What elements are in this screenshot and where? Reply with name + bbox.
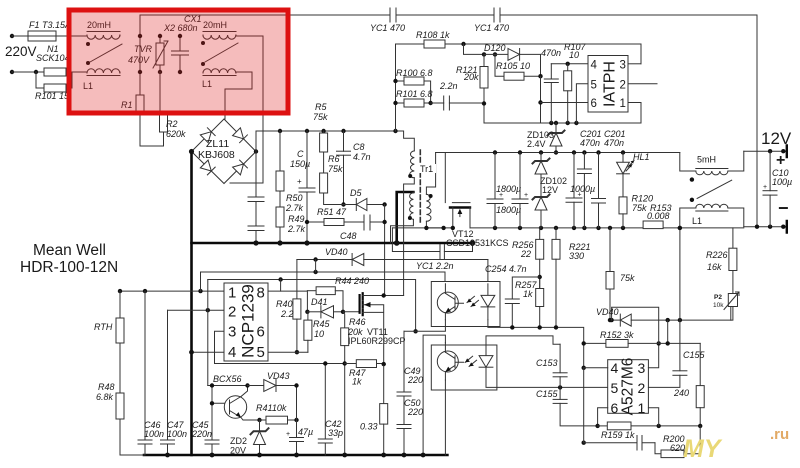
node out minus terminal	[781, 225, 785, 229]
svg-text:4: 4	[611, 360, 619, 376]
svg-text:1k: 1k	[352, 377, 362, 387]
svg-text:47µ: 47µ	[298, 427, 313, 437]
wire opto1 cathode rail y327.4	[488, 320, 584, 368]
wire IATPH pin6	[541, 102, 589, 104]
node sec bottom junction	[441, 226, 445, 230]
capacitor C8 4.7n	[337, 131, 351, 205]
resistor R101(15)	[36, 72, 72, 92]
svg-text:4: 4	[591, 60, 598, 72]
svg-text:10: 10	[314, 329, 324, 339]
transformer Tr1 aux winding	[410, 192, 414, 219]
MOSFET VT12 CSD19531KCS sync rectifier	[450, 203, 470, 228]
node C47 bottom	[165, 453, 170, 458]
node out minus ycap	[755, 225, 759, 229]
wire IATPH pin2 stub	[628, 83, 657, 85]
svg-text:R51 47: R51 47	[317, 207, 347, 217]
node out minus C10	[768, 225, 772, 229]
node 240 bottom	[698, 424, 702, 428]
node +12 rail caps	[493, 150, 497, 154]
node R40 bottom pin5	[295, 350, 299, 354]
svg-text:6: 6	[611, 400, 619, 416]
wire aux rail y123	[484, 122, 641, 124]
wire IATPH pin1	[628, 103, 641, 124]
node A VD40 tap	[313, 270, 317, 274]
wire pin3 net y363.5	[215, 363, 345, 365]
node aux rail 470n	[549, 121, 553, 125]
svg-text:2: 2	[620, 80, 626, 92]
capacitor C48	[364, 215, 385, 230]
capacitor 1800u first	[487, 153, 503, 228]
node CX1 bottom	[178, 70, 182, 74]
capacitor YC1 470 (second)	[494, 8, 500, 22]
choke L1 5mH bottom winding	[680, 204, 744, 228]
wire pin8 riser	[280, 280, 282, 292]
svg-text:0.008: 0.008	[647, 211, 670, 221]
node rail R50	[278, 129, 282, 133]
resistor R221 330	[552, 228, 560, 328]
wire secondary gnd rail left	[392, 227, 452, 229]
node pin4 tap	[582, 366, 586, 370]
capacitor C155 lower	[553, 387, 598, 426]
svg-text:0.33: 0.33	[360, 422, 378, 432]
node R256 C254 tap	[538, 275, 542, 279]
wire top Y-cap line	[140, 15, 757, 227]
node D41 right gate node	[341, 310, 345, 314]
wire R100 R101 feeder vertical	[395, 44, 397, 131]
svg-text:R5: R5	[315, 102, 327, 112]
svg-text:6: 6	[591, 98, 597, 110]
svg-text:2.2: 2.2	[280, 309, 294, 319]
wire +12V secondary rail	[436, 152, 680, 154]
resistor R2 620k	[160, 72, 168, 132]
zener ZD2 20V	[251, 420, 269, 455]
wire VT12 gate feed	[444, 153, 446, 203]
wire output minus rail	[744, 226, 787, 228]
svg-text:1800µ: 1800µ	[496, 184, 521, 194]
svg-text:VD40: VD40	[596, 307, 619, 317]
optocoupler U3 upper box	[431, 282, 500, 327]
node R108 jog	[461, 42, 465, 46]
zener ZD103 2.4V	[548, 123, 565, 153]
node B pin8 riser	[278, 277, 282, 281]
wire drain riser D5	[384, 205, 386, 296]
svg-text:470n: 470n	[604, 138, 624, 148]
bridge rectifier ZL11 KBJ608 diamond	[192, 119, 257, 184]
wire opto2 collector	[423, 335, 445, 455]
capacitor 1800u second	[512, 153, 528, 228]
svg-text:R46: R46	[349, 317, 366, 327]
svg-text:KBJ608: KBJ608	[198, 149, 235, 161]
svg-text:CSD19531KCS: CSD19531KCS	[446, 238, 509, 248]
svg-text:2.2n: 2.2n	[439, 81, 458, 91]
capacitor 1000u	[566, 153, 582, 228]
resistor 75k secondary sense	[606, 228, 614, 320]
node B emitter junction	[413, 329, 417, 333]
svg-text:3: 3	[638, 360, 646, 376]
wire D120 feed	[464, 44, 485, 54]
capacitor C50 220	[397, 425, 411, 456]
wire B drop pin2 to base net	[207, 280, 209, 386]
wire opto2 emitter down	[444, 380, 446, 455]
svg-text:6.8k: 6.8k	[96, 392, 114, 402]
node VD40 cathode tap	[313, 257, 317, 261]
node rail R100 feed	[393, 129, 397, 133]
node D41 left	[305, 310, 309, 314]
resistor R45 10	[304, 312, 312, 352]
svg-text:2: 2	[228, 304, 236, 321]
svg-text:20V: 20V	[230, 446, 246, 456]
wire A horizontal to opto1 collector	[201, 272, 446, 284]
thick primary bus	[144, 152, 473, 456]
node ZD103 bottom	[554, 150, 558, 154]
node gnd rail ZD102	[539, 226, 543, 230]
node TVR top	[158, 34, 162, 38]
wire thick bottom rail	[144, 454, 447, 457]
svg-text:1: 1	[228, 285, 236, 302]
node VD40b cathode bypass	[609, 318, 613, 322]
resistor R1 680k	[136, 95, 164, 146]
svg-text:2.7k: 2.7k	[287, 224, 306, 234]
diode D5	[324, 193, 385, 211]
wire choke2 top output to bridge AC2	[230, 36, 263, 183]
bridge diode top-right	[233, 128, 248, 143]
choke L1 second common-mode, top winding 20mH	[203, 32, 236, 40]
resistor R40 2.2	[293, 299, 301, 352]
resistor R256 22	[536, 228, 544, 292]
svg-text:VD43: VD43	[267, 371, 290, 381]
bridge diode bottom-right	[233, 160, 248, 175]
transformer Tr1 primary main winding	[410, 151, 415, 178]
wire BCX emitter to ZD2/R41	[241, 418, 260, 421]
svg-text:10: 10	[569, 50, 579, 60]
resistor R48 6.8k	[116, 393, 124, 455]
node R101 right	[428, 101, 432, 105]
svg-text:12V: 12V	[542, 185, 558, 195]
svg-text:75k: 75k	[632, 203, 647, 213]
wire VD43 cathode vertical	[296, 386, 298, 421]
node gnd rail C201b	[596, 226, 600, 230]
resistor R226 16k	[729, 228, 737, 294]
wire NCP pin4 to gnd trunk	[192, 351, 225, 353]
resistor 240	[696, 343, 704, 426]
svg-text:33p: 33p	[328, 428, 343, 438]
node R41 right 47u	[294, 418, 298, 422]
wire thick aux winding feed	[397, 192, 414, 243]
svg-text:1: 1	[638, 400, 646, 416]
node VT11 drain D5 tap	[382, 293, 386, 297]
wire A riser	[200, 272, 202, 291]
wire bridge right corner up to +DC rail	[255, 131, 257, 152]
resistor 0.33 current sense	[380, 366, 388, 455]
node wire1 x140	[138, 34, 142, 38]
wire BCX collector up to VD43	[241, 386, 248, 397]
svg-text:HL1: HL1	[633, 152, 650, 162]
svg-text:R105 10: R105 10	[496, 61, 530, 71]
opto2 led	[465, 343, 493, 380]
choke L1 first common-mode, top winding 20mH	[87, 32, 120, 40]
wire VD40 tap to A	[315, 260, 317, 273]
node thick rail 47u	[294, 453, 299, 458]
opto1 led	[467, 284, 495, 320]
node thick aux feed junction	[394, 240, 400, 246]
svg-text:4: 4	[228, 344, 236, 361]
node R51 left	[305, 220, 309, 224]
zener ZD102 lower	[533, 174, 550, 228]
svg-text:3: 3	[620, 60, 626, 72]
output terminal bars	[786, 146, 788, 233]
svg-text:10k: 10k	[713, 302, 724, 309]
node R46 line crosses pin3 net	[343, 361, 347, 365]
wire thick GND trunk	[190, 152, 193, 456]
diode D41	[307, 306, 343, 318]
choke L1 first, bottom winding	[87, 69, 120, 76]
wire primary main bottom to drain line	[404, 178, 415, 296]
svg-text:470n: 470n	[541, 48, 561, 58]
wire B horizontal	[208, 280, 416, 332]
svg-text:YC1 2.2n: YC1 2.2n	[416, 261, 454, 271]
fuse F1	[28, 31, 56, 41]
node thick caps junction	[253, 240, 258, 245]
diode D120	[484, 49, 541, 77]
wire input line top	[12, 35, 87, 37]
transistor BCX56	[224, 396, 246, 418]
svg-text:75k: 75k	[328, 164, 343, 174]
capacitor YC1 470 (first)	[390, 8, 396, 22]
wire NCP pin3 down loop	[215, 331, 225, 363]
wire base jog	[212, 402, 230, 404]
resistor R51 47	[307, 219, 364, 226]
wire R105 node down to pin6 line	[540, 76, 542, 123]
wire aux bottom return	[391, 219, 414, 243]
svg-text:R6: R6	[328, 154, 340, 164]
svg-text:2.4V: 2.4V	[527, 139, 546, 149]
diode VD40 secondary	[620, 314, 731, 326]
node C45 bottom	[210, 453, 215, 458]
node rail C254	[510, 325, 514, 329]
wire vertical to R1 and top rail	[139, 15, 141, 95]
node VD43 cathode	[294, 383, 298, 387]
svg-text:+: +	[524, 192, 528, 199]
varistor TVR 470V	[153, 36, 168, 72]
svg-text:75k: 75k	[620, 273, 635, 283]
svg-text:100n: 100n	[167, 429, 187, 439]
wire NCP pin8 R44 feed	[268, 291, 307, 312]
svg-text:4.7n: 4.7n	[353, 152, 371, 162]
resistor R50 2.7k	[276, 131, 284, 191]
svg-text:R49: R49	[288, 214, 305, 224]
bridge diode top-left	[200, 128, 215, 143]
wire NCP pin1 to left	[120, 290, 224, 292]
svg-text:MY: MY	[683, 435, 723, 463]
wire NCP pin5 right	[268, 351, 308, 353]
resistor R101 6.8	[396, 99, 431, 107]
transformer Tr1 secondary winding	[426, 194, 431, 221]
wire VD40b anode to R152 wire	[667, 320, 669, 343]
node C46 top	[143, 289, 147, 293]
wire A527 pin4	[584, 367, 608, 369]
svg-text:620k: 620k	[166, 129, 186, 139]
capacitor R159 compensation	[637, 436, 642, 451]
resistor R105 10	[495, 54, 541, 80]
svg-text:C155: C155	[683, 350, 706, 360]
node rail R221	[554, 325, 558, 329]
wire opto1 emitter to C49 chain	[404, 320, 445, 332]
capacitor C201 second	[592, 153, 606, 228]
svg-text:3: 3	[228, 324, 236, 341]
svg-text:−: −	[778, 198, 789, 218]
node out plus terminal	[781, 149, 785, 153]
node rail C8	[341, 129, 345, 133]
wire R40 top to VD40 anode line	[296, 260, 298, 299]
wire A527 pin3	[648, 343, 658, 367]
LED HL1	[617, 153, 634, 174]
svg-text:C155: C155	[536, 389, 559, 399]
node R200 tap	[582, 441, 586, 445]
node gnd rail 75k	[608, 226, 612, 230]
wire thick mid rail	[192, 242, 473, 245]
node pin8 vcc tap	[280, 290, 282, 292]
svg-text:D5: D5	[350, 188, 362, 198]
svg-text:F1 T3.15A: F1 T3.15A	[29, 20, 71, 30]
svg-text:1800µ: 1800µ	[496, 205, 521, 215]
svg-text:R45: R45	[313, 319, 331, 329]
resistor R108 1k	[396, 40, 642, 64]
node anode link bottom	[666, 341, 670, 345]
resistor R159 1k	[598, 422, 701, 430]
red highlight box	[69, 10, 288, 113]
node thick rail ZD2	[257, 453, 262, 458]
capacitor C45 220n	[205, 386, 219, 456]
svg-text:HDR-100-12N: HDR-100-12N	[20, 259, 118, 276]
wire choke2 bottom output to bridge AC1	[225, 72, 252, 113]
capacitor C153	[553, 344, 567, 387]
node VD40b 75k junction	[608, 318, 612, 322]
node ZD2 top	[257, 418, 261, 422]
svg-text:R101 15: R101 15	[35, 91, 70, 101]
svg-text:ZD2: ZD2	[230, 436, 247, 446]
label Tr1	[419, 164, 436, 174]
capacitor 2.2n	[431, 96, 484, 110]
node thick C150 junction	[304, 240, 309, 245]
node input terminal L	[10, 34, 14, 38]
node pin1 R159 junction	[657, 424, 661, 428]
choke 5mH phase dots and diagonal	[690, 177, 732, 202]
resistor R153 0.008 shunt	[643, 221, 663, 229]
node thick YC1 junction	[470, 240, 476, 246]
node gnd rail 1800u a	[493, 226, 497, 230]
wire NCP pin2 to left	[168, 309, 225, 311]
capacitor C10 100u	[763, 151, 777, 227]
IC U1 NCP1239 box	[224, 283, 268, 361]
wire IATPH pin5	[576, 84, 588, 123]
node primary main phase dot	[408, 174, 412, 178]
svg-text:2: 2	[638, 380, 646, 396]
node gnd rail C201a	[582, 226, 586, 230]
node rail R5	[321, 129, 325, 133]
choke L1 5mH top winding	[680, 151, 744, 175]
svg-text:P2: P2	[714, 294, 722, 301]
node gnd rail 1800u b	[518, 226, 522, 230]
capacitor pair below bridge right	[248, 152, 264, 243]
node C45 base tap	[210, 383, 214, 387]
opto2 transistor	[437, 343, 463, 380]
node pin2 base tap	[206, 308, 210, 312]
node C8 bottom	[341, 202, 345, 206]
svg-text:1000µ: 1000µ	[570, 184, 595, 194]
node C42 top	[323, 361, 327, 365]
capacitor C46 100n	[138, 291, 152, 455]
node R121 2.2n junction	[482, 101, 486, 105]
svg-text:R40: R40	[276, 299, 293, 309]
svg-text:Mean Well: Mean Well	[33, 242, 106, 259]
svg-text:330: 330	[569, 251, 584, 261]
resistor R6 75k	[320, 152, 328, 193]
wire IATPH pin3 top loop handled by R108 wire	[628, 63, 641, 65]
node gnd rail choke in	[678, 226, 682, 230]
svg-text:220V: 220V	[5, 44, 37, 59]
svg-text:VD40: VD40	[325, 247, 348, 257]
svg-text:+: +	[776, 152, 785, 169]
resistor R41 10k	[260, 416, 297, 424]
svg-text:22: 22	[520, 249, 531, 259]
capacitor C42 33p	[318, 364, 332, 456]
svg-text:100n: 100n	[144, 429, 164, 439]
svg-text:R50: R50	[286, 193, 303, 203]
svg-text:C48: C48	[340, 231, 357, 241]
svg-text:L1: L1	[692, 216, 702, 226]
svg-text:R101 6.8: R101 6.8	[396, 89, 433, 99]
svg-text:16k: 16k	[707, 262, 722, 272]
node C155b top	[678, 318, 682, 322]
IC U201 IATPH box	[588, 56, 628, 113]
node rail R257	[538, 325, 542, 329]
node VD40b anode link	[666, 318, 670, 322]
MOSFET VT11 IPL60R299CP	[360, 293, 404, 366]
node opto2 collector bottom	[421, 453, 426, 458]
node R105 right	[538, 74, 542, 78]
node wire2 x140	[138, 70, 142, 74]
wire +DC rail y131	[256, 131, 414, 151]
choke1 phase dots and core diagonal	[86, 42, 122, 65]
svg-text:Tr1: Tr1	[420, 164, 433, 174]
svg-text:75k: 75k	[313, 112, 328, 122]
capacitor 470n at pin4	[544, 64, 558, 123]
node 0.33 bottom	[381, 453, 386, 458]
svg-text:R120: R120	[632, 194, 654, 204]
wire VD40 cathode down to opto1 led	[487, 260, 489, 284]
resistor R107 10	[564, 64, 572, 123]
node CX1 top	[178, 34, 182, 38]
svg-text:SCK104: SCK104	[36, 53, 70, 63]
node junction N1/R101	[34, 70, 38, 74]
svg-text:240: 240	[673, 388, 689, 398]
svg-text:D41: D41	[311, 297, 328, 307]
wire bridge AC1 from box	[224, 113, 226, 119]
transformer core dashed	[419, 150, 421, 222]
svg-text:6: 6	[257, 324, 265, 341]
node gnd rail HL1	[621, 226, 625, 230]
resistor R152 3k	[584, 340, 701, 348]
node R152 left tap	[582, 341, 586, 345]
svg-text:150µ: 150µ	[290, 159, 310, 169]
svg-text:NCP1239: NCP1239	[239, 284, 258, 358]
zener ZD102 upper	[533, 153, 550, 175]
node R100 left	[393, 79, 397, 83]
svg-text:R152 3k: R152 3k	[600, 330, 634, 340]
node VT12 source rail	[451, 226, 455, 230]
wire gate node to VT11 gate	[343, 311, 360, 313]
node gnd rail R226	[732, 227, 734, 229]
